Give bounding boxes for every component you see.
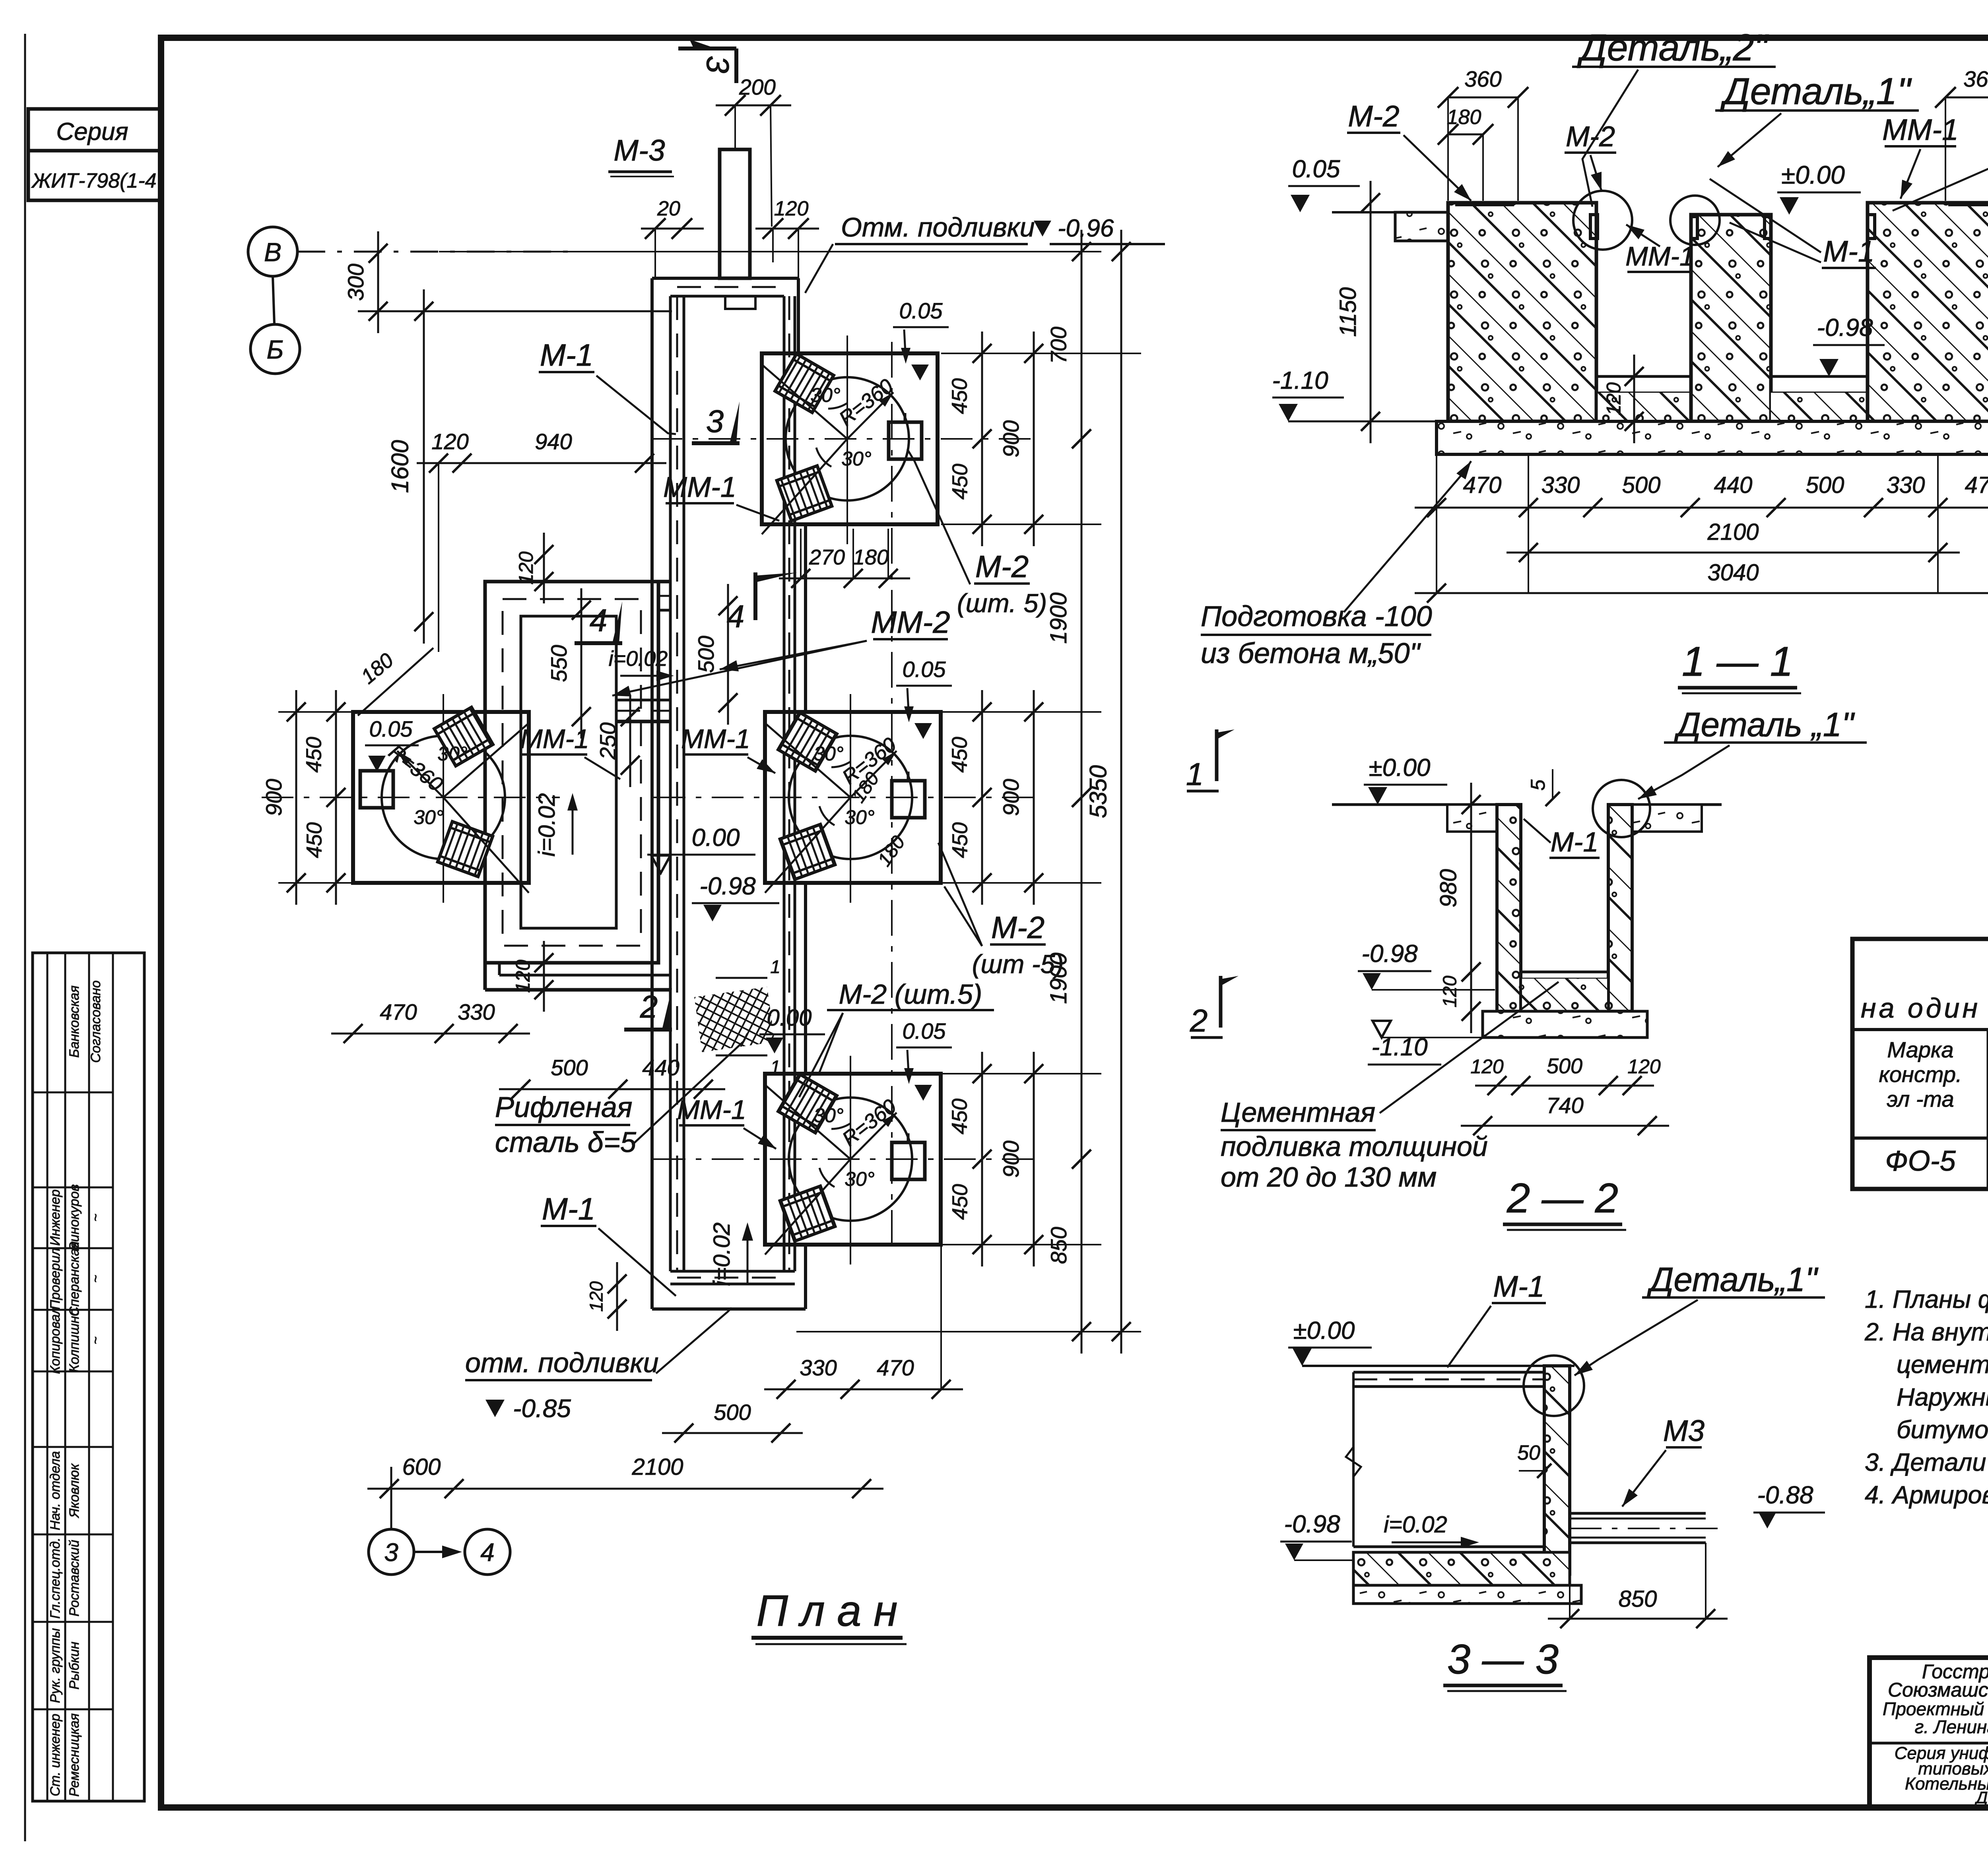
svg-text:г. Ленинград 1967г: г. Ленинград 1967г xyxy=(1915,1716,1988,1737)
plan right chain 700 1900 1900 850 xyxy=(1081,230,1083,461)
svg-text:30°: 30° xyxy=(414,806,444,828)
svg-text:~: ~ xyxy=(88,1214,103,1222)
section 1-1 detail circle 1 xyxy=(1670,196,1720,245)
section 1-1 base prep slab xyxy=(1437,421,1988,454)
svg-text:ММ-1: ММ-1 xyxy=(1882,113,1959,146)
plan: section 1 small marks xyxy=(716,977,767,979)
svg-text:2 — 2: 2 — 2 xyxy=(1507,1175,1618,1222)
svg-text:ММ-1: ММ-1 xyxy=(663,471,736,503)
dim 200 at top xyxy=(716,105,791,107)
svg-text:М-2 (шт.5): М-2 (шт.5) xyxy=(839,979,982,1010)
svg-text:ДКВР: ДКВР xyxy=(1974,1788,1988,1807)
section 1-1 dim 1150 xyxy=(1370,181,1372,443)
svg-text:300: 300 xyxy=(343,264,368,301)
svg-text:на один конструктивный моно: на один конструктивный монолитный элемен… xyxy=(1861,993,1988,1024)
svg-text:-0.98: -0.98 xyxy=(1817,314,1873,341)
svg-text:Ремесницкая: Ремесницкая xyxy=(67,1713,82,1797)
svg-text:М-1: М-1 xyxy=(1551,826,1599,857)
svg-text:Рук. группы: Рук. группы xyxy=(48,1628,63,1703)
svg-text:М-2: М-2 xyxy=(1348,99,1399,133)
svg-text:±0.00: ±0.00 xyxy=(1293,1317,1355,1344)
plan: small notch under top wall (M-3 seat) xyxy=(725,296,755,309)
svg-text:М-2: М-2 xyxy=(975,549,1029,584)
plan dim extension verticals right side xyxy=(941,353,1141,354)
svg-text:4: 4 xyxy=(480,1538,495,1567)
plan: channel outer boundary left xyxy=(650,278,654,1309)
svg-text:ММ-1: ММ-1 xyxy=(681,724,750,754)
svg-text:ФО-5: ФО-5 xyxy=(1885,1145,1956,1177)
svg-text:i=0.02: i=0.02 xyxy=(534,793,560,857)
svg-text:битумом за 2 раза.: битумом за 2 раза. xyxy=(1897,1416,1988,1444)
svg-text:Яковлюк: Яковлюк xyxy=(67,1463,82,1518)
svg-text:470: 470 xyxy=(1463,472,1502,498)
svg-text:Марка: Марка xyxy=(1887,1037,1953,1062)
svg-text:180: 180 xyxy=(853,545,889,569)
plan: channel right outer boundary segments between pads xyxy=(797,278,800,353)
svg-text:900: 900 xyxy=(261,779,286,816)
section 3-3 right wall hatched xyxy=(1544,1366,1570,1574)
svg-text:30°: 30° xyxy=(813,743,844,765)
section 3-3 hatched base xyxy=(1353,1552,1570,1585)
section 1-1 middle pier xyxy=(1691,215,1771,421)
svg-text:-0.88: -0.88 xyxy=(1757,1482,1813,1509)
svg-text:Деталь„2": Деталь„2" xyxy=(1577,27,1769,69)
svg-text:330: 330 xyxy=(1541,472,1580,498)
plan: pad left xyxy=(353,712,529,883)
svg-text:120: 120 xyxy=(1603,382,1625,416)
svg-text:5350: 5350 xyxy=(1085,765,1112,818)
svg-text:0.00: 0.00 xyxy=(767,1005,812,1031)
section 3-3 top slab xyxy=(1353,1371,1571,1374)
svg-text:М-1: М-1 xyxy=(1493,1270,1544,1303)
svg-text:330: 330 xyxy=(458,999,495,1024)
svg-text:Инженер: Инженер xyxy=(48,1189,63,1246)
section 1-1 dim 120 xyxy=(1633,355,1635,443)
svg-text:Деталь „1": Деталь „1" xyxy=(1674,706,1855,744)
plan: horizontal leg walls connecting ring to channel xyxy=(658,580,670,584)
left trim line xyxy=(24,34,26,1841)
svg-text:30°: 30° xyxy=(813,1104,844,1127)
section 1-1 detail circle 2 xyxy=(1573,191,1632,250)
plan dim 120 at bottom wall xyxy=(616,1262,618,1331)
svg-text:120: 120 xyxy=(512,960,534,993)
svg-text:900: 900 xyxy=(998,779,1023,816)
svg-text:сталь δ=5: сталь δ=5 xyxy=(495,1127,637,1158)
svg-text:980: 980 xyxy=(1436,869,1462,908)
svg-text:2100: 2100 xyxy=(1707,519,1759,545)
svg-text:550: 550 xyxy=(546,645,571,682)
svg-text:Нач. отдела: Нач. отдела xyxy=(48,1451,63,1530)
plan dim 470 330 under left pad xyxy=(331,1033,530,1035)
plan dim 120 940 upper left xyxy=(417,462,666,464)
svg-text:i=0.02: i=0.02 xyxy=(709,1222,735,1286)
plan: axis circle Б xyxy=(250,324,300,374)
svg-text:120: 120 xyxy=(586,1281,607,1312)
svg-text:В: В xyxy=(264,237,282,267)
plan dim 500 bottom xyxy=(662,1432,803,1434)
svg-text:1: 1 xyxy=(1186,756,1204,792)
svg-text:0.05: 0.05 xyxy=(369,716,413,741)
svg-text:360: 360 xyxy=(1963,66,1988,91)
svg-text:3. Детали „1" и „2" см. н: 3. Детали „1" и „2" см. на листе КЖ-17 xyxy=(1865,1449,1988,1476)
svg-text:i=0.02: i=0.02 xyxy=(1384,1512,1447,1538)
title block stamp xyxy=(1870,1658,1988,1807)
svg-text:(шт. 5): (шт. 5) xyxy=(957,588,1047,618)
svg-text:440: 440 xyxy=(1714,472,1753,498)
plan vertical dash-dot axis through pad squares xyxy=(891,342,893,1248)
plan dim 300 left xyxy=(377,231,379,333)
svg-text:1 — 1: 1 — 1 xyxy=(1682,638,1793,685)
section 2-2 U channel walls xyxy=(1497,805,1521,1011)
svg-text:Деталь„1": Деталь„1" xyxy=(1720,70,1912,112)
svg-text:1600: 1600 xyxy=(387,440,414,493)
svg-text:450: 450 xyxy=(302,737,326,772)
svg-text:1150: 1150 xyxy=(1335,287,1361,337)
plan: ring channel (section 4 loop) outer xyxy=(485,582,658,963)
svg-text:4: 4 xyxy=(590,603,608,638)
plan: ring dashed centerlines xyxy=(503,599,641,946)
svg-text:500: 500 xyxy=(1622,472,1661,498)
svg-text:30°: 30° xyxy=(437,743,468,765)
svg-text:отм. подливки: отм. подливки xyxy=(465,1347,658,1378)
svg-text:-0.96: -0.96 xyxy=(1058,215,1114,242)
svg-text:~: ~ xyxy=(88,1336,103,1344)
svg-text:Деталь„1": Деталь„1" xyxy=(1647,1261,1819,1299)
plan left pad dims 450 450 900 xyxy=(335,690,337,905)
svg-text:ММ-2: ММ-2 xyxy=(871,605,950,640)
svg-text:3: 3 xyxy=(700,56,736,74)
section cut flag 1 left xyxy=(1215,729,1219,781)
section 1-1 left concrete block xyxy=(1448,203,1596,421)
plan: channel right wall double lines xyxy=(783,296,786,1271)
plan: channel top closure xyxy=(652,277,798,280)
svg-text:850: 850 xyxy=(1619,1586,1657,1612)
plan: axis circle 3 xyxy=(369,1529,414,1575)
plan section flags 4 xyxy=(575,641,622,645)
svg-text:из бетона м„50": из бетона м„50" xyxy=(1201,638,1421,669)
plan: pad 2 middle right xyxy=(765,712,941,883)
plan: axis circle B xyxy=(248,227,297,276)
svg-text:~: ~ xyxy=(88,1275,103,1283)
svg-text:120: 120 xyxy=(1627,1055,1661,1078)
svg-text:М-2: М-2 xyxy=(991,910,1044,945)
plan dim 270 180 under pad1 xyxy=(779,578,910,580)
svg-text:330: 330 xyxy=(1887,472,1925,498)
svg-text:450: 450 xyxy=(948,1184,972,1220)
section 1-1 bottom chains xyxy=(1415,507,1988,509)
svg-text:30°: 30° xyxy=(845,1168,875,1190)
plan dim 250 120 ring lower xyxy=(629,695,631,787)
svg-text:Винокуров: Винокуров xyxy=(67,1184,82,1251)
svg-text:Гл.спец.отд.: Гл.спец.отд. xyxy=(48,1538,63,1619)
svg-text:М-3: М-3 xyxy=(613,134,665,167)
svg-text:2100: 2100 xyxy=(631,1454,683,1480)
svg-text:450: 450 xyxy=(948,1098,972,1134)
section 2-2 detail circle xyxy=(1593,780,1650,837)
section 2-2 right ground slab xyxy=(1632,805,1702,832)
svg-text:М-1: М-1 xyxy=(542,1191,595,1226)
plan: axis circle 4 xyxy=(465,1529,510,1575)
plan: pad 1 top right xyxy=(762,353,938,524)
svg-text:Рыбкин: Рыбкин xyxy=(67,1641,82,1689)
svg-text:Союзмашстройпроект: Союзмашстройпроект xyxy=(1888,1679,1988,1701)
section 2-2 dims 980 120 xyxy=(1470,783,1472,994)
section 2-2 left ground slab xyxy=(1447,805,1497,832)
section 3-3 detail circle xyxy=(1524,1356,1584,1416)
svg-text:3 — 3: 3 — 3 xyxy=(1447,1636,1559,1683)
svg-text:П л а н: П л а н xyxy=(756,1586,897,1635)
svg-text:0.05: 0.05 xyxy=(1292,155,1340,183)
series box top-left xyxy=(28,109,162,151)
svg-text:740: 740 xyxy=(1546,1093,1583,1118)
svg-text:600: 600 xyxy=(402,1454,441,1480)
svg-text:Проверил: Проверил xyxy=(48,1248,63,1309)
svg-text:470: 470 xyxy=(1965,472,1988,498)
svg-text:М-1: М-1 xyxy=(1823,235,1874,268)
section 2-2 ground lines xyxy=(1332,803,1497,806)
svg-text:ЖИТ-798(1-4: ЖИТ-798(1-4 xyxy=(31,169,156,192)
svg-text:470: 470 xyxy=(877,1355,914,1380)
svg-text:i=0.02: i=0.02 xyxy=(609,647,668,671)
svg-text:30°: 30° xyxy=(845,806,875,828)
section 2-2 dims below xyxy=(1475,1085,1654,1087)
plan dim 550 500 ring xyxy=(580,588,582,739)
svg-text:ММ-1: ММ-1 xyxy=(520,724,589,754)
svg-text:0.05: 0.05 xyxy=(903,1018,946,1043)
section 2-2 floor xyxy=(1521,971,1608,974)
svg-text:0.05: 0.05 xyxy=(903,657,946,682)
svg-text:2: 2 xyxy=(1190,1003,1208,1038)
svg-text:180: 180 xyxy=(1447,106,1481,129)
svg-text:3: 3 xyxy=(384,1538,398,1567)
svg-text:Сперанская: Сперанская xyxy=(67,1241,82,1317)
svg-text:120: 120 xyxy=(431,429,468,454)
plan dim 5350 outer right xyxy=(1120,230,1122,1354)
svg-text:3: 3 xyxy=(706,403,724,439)
section 3-3 left break line xyxy=(1352,1387,1355,1547)
plan dim 330 470 bottom right xyxy=(764,1389,963,1390)
svg-text:30°: 30° xyxy=(841,448,872,470)
svg-text:-0.85: -0.85 xyxy=(513,1394,571,1423)
svg-text:360: 360 xyxy=(1464,66,1501,91)
plan: ring channel inner hole xyxy=(521,616,616,928)
svg-text:700: 700 xyxy=(1046,327,1071,364)
svg-text:Б: Б xyxy=(267,335,284,364)
svg-text:440: 440 xyxy=(642,1055,679,1080)
section 1-1 dims top xyxy=(1448,97,1518,99)
svg-text:900: 900 xyxy=(998,420,1023,457)
svg-text:-0.98: -0.98 xyxy=(1284,1511,1340,1538)
svg-text:20: 20 xyxy=(657,197,680,220)
svg-text:250: 250 xyxy=(595,722,620,760)
svg-text:2. На внутренние поверхности: 2. На внутренние поверхности канала нане… xyxy=(1864,1318,1988,1346)
svg-text:ММ-1: ММ-1 xyxy=(677,1095,746,1125)
svg-text:±0.00: ±0.00 xyxy=(1781,161,1845,189)
svg-text:цементную гидроизоляцию со: цементную гидроизоляцию состава 1:2, тол… xyxy=(1897,1351,1988,1379)
plan: channel left wall double lines xyxy=(669,296,672,1271)
svg-text:Копировал: Копировал xyxy=(48,1307,63,1374)
plan dim 600 2100 bottom xyxy=(367,1488,883,1490)
svg-text:270: 270 xyxy=(809,545,845,569)
section 1-1 right concrete block xyxy=(1868,203,1988,421)
svg-text:М3: М3 xyxy=(1663,1414,1705,1447)
plan: channel bottom closure xyxy=(670,1270,795,1273)
plan: dim 20 120 above channel xyxy=(641,228,704,230)
svg-text:Согласовано: Согласовано xyxy=(88,980,103,1063)
svg-text:120: 120 xyxy=(774,197,809,220)
signature table left edge xyxy=(33,953,144,1801)
svg-text:2: 2 xyxy=(640,989,658,1024)
svg-text:±0.00: ±0.00 xyxy=(1369,754,1431,782)
svg-text:120: 120 xyxy=(515,551,537,585)
svg-text:Ст. инженер: Ст. инженер xyxy=(48,1714,63,1796)
section 1-1 trough1 floor slab xyxy=(1596,375,1691,378)
svg-text:450: 450 xyxy=(948,463,972,499)
plan right dims pad1 450 450 900 700 1900 xyxy=(981,332,983,546)
plan section flag 3 xyxy=(692,441,740,445)
svg-text:Подготовка -100: Подготовка -100 xyxy=(1201,601,1432,632)
svg-text:Колпишно: Колпишно xyxy=(67,1309,82,1373)
svg-text:30°: 30° xyxy=(810,384,841,406)
svg-text:Банковская: Банковская xyxy=(67,985,82,1058)
svg-text:-0.98: -0.98 xyxy=(1361,940,1418,968)
svg-text:1. Планы фундаментов под об: 1. Планы фундаментов под оборудование см… xyxy=(1865,1286,1988,1313)
plan right dims pad2 xyxy=(981,690,983,905)
svg-text:50: 50 xyxy=(1517,1441,1540,1464)
section 1-1 trough2 floor slab xyxy=(1771,375,1868,378)
svg-text:470: 470 xyxy=(380,999,417,1024)
section 3-3 dim 850 xyxy=(1548,1618,1728,1620)
svg-text:Серия: Серия xyxy=(56,118,128,145)
svg-text:Наружные поверхности канал: Наружные поверхности канала обмазать гор… xyxy=(1897,1383,1988,1411)
svg-text:500: 500 xyxy=(714,1400,751,1425)
section 1-1 embedded plates M-2 xyxy=(1455,202,1514,206)
svg-text:Котельных с котлами: Котельных с котлами xyxy=(1905,1774,1988,1794)
plan: riffled steel crosshatch patch xyxy=(694,987,775,1052)
svg-text:330: 330 xyxy=(800,1355,837,1380)
svg-text:М-1: М-1 xyxy=(540,337,593,372)
svg-text:450: 450 xyxy=(948,378,972,414)
svg-text:500: 500 xyxy=(551,1055,588,1080)
plan: M-3 stub pillar xyxy=(720,149,750,278)
svg-text:900: 900 xyxy=(998,1140,1023,1177)
plan dim 500 440 mid xyxy=(499,1088,725,1090)
svg-text:0.05: 0.05 xyxy=(899,298,943,323)
svg-text:3040: 3040 xyxy=(1707,560,1759,586)
svg-text:эл -та: эл -та xyxy=(1887,1086,1954,1111)
svg-text:констр.: констр. xyxy=(1879,1062,1962,1087)
plan dim 120 above ring xyxy=(543,533,545,603)
svg-text:120: 120 xyxy=(1470,1055,1504,1078)
plan dim 1600 left xyxy=(423,289,425,644)
svg-text:940: 940 xyxy=(535,429,572,454)
svg-text:4. Армирование см. лист К: 4. Армирование см. лист КЖ-18. xyxy=(1865,1481,1988,1509)
svg-text:500: 500 xyxy=(1547,1054,1582,1078)
plan section flag 2 xyxy=(624,1028,672,1032)
plan: pad 3 bottom right xyxy=(765,1074,941,1245)
svg-text:5: 5 xyxy=(1527,780,1549,791)
svg-text:1900: 1900 xyxy=(1046,952,1072,1004)
svg-text:от 20 до 130 мм: от 20 до 130 мм xyxy=(1221,1162,1437,1193)
svg-text:Отм. подливки: Отм. подливки xyxy=(841,212,1035,242)
plan: lower connector from ring to channel xyxy=(483,963,487,990)
svg-text:-0.98: -0.98 xyxy=(699,873,756,900)
section 2-2 base slab xyxy=(1483,1011,1647,1038)
plan right dims pad3 xyxy=(981,1052,983,1266)
svg-text:500: 500 xyxy=(693,636,718,673)
svg-text:подливка толщиной: подливка толщиной xyxy=(1221,1131,1488,1162)
svg-text:500: 500 xyxy=(1806,472,1844,498)
svg-text:450: 450 xyxy=(948,822,972,858)
svg-text:1: 1 xyxy=(770,956,780,977)
svg-text:Цементная: Цементная xyxy=(1221,1097,1375,1128)
svg-text:0.00: 0.00 xyxy=(692,824,740,851)
svg-text:200: 200 xyxy=(739,75,776,99)
svg-text:450: 450 xyxy=(303,822,326,858)
section 1-1 left ground slab xyxy=(1395,212,1448,241)
svg-text:120: 120 xyxy=(1440,975,1461,1007)
plan: section 3 cut mark top xyxy=(678,47,736,50)
svg-text:Роставский: Роставский xyxy=(67,1540,82,1616)
svg-text:1900: 1900 xyxy=(1046,592,1072,644)
section cut flag 2 left xyxy=(1219,976,1223,1028)
svg-text:-1.10: -1.10 xyxy=(1272,367,1328,394)
svg-text:450: 450 xyxy=(948,737,972,772)
concrete and steel consumption table xyxy=(1852,939,1988,1189)
